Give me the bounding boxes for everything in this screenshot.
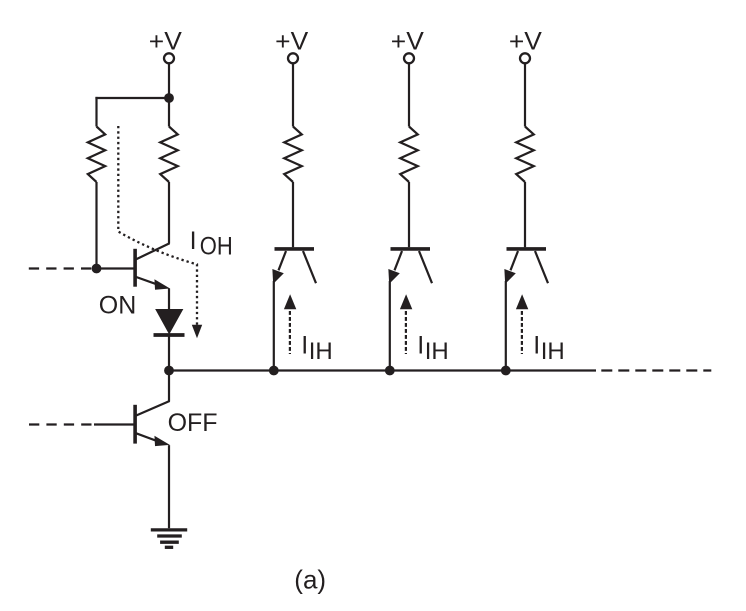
current arrow IIH 4 arrowhead (516, 294, 528, 309)
wire Q2 emitter to ground (168, 445, 170, 528)
wire supply 3 to resistor (408, 63, 410, 126)
wire base to Q1 (97, 267, 134, 269)
node top junction dot (164, 93, 174, 103)
transistor load Q4 emitter lead (511, 251, 519, 270)
svg-text:+V: +V (509, 28, 542, 56)
svg-text:OH: OH (200, 233, 233, 261)
ground symbol (151, 530, 187, 547)
svg-text:I: I (301, 332, 308, 360)
wire Q2 collector from output node (168, 371, 170, 402)
current arrow IIH 3 dashed stem (405, 311, 407, 354)
svg-text:OFF: OFF (168, 409, 218, 437)
wire output bus solid (169, 369, 596, 371)
transistor Q1 emitter arrowhead (155, 280, 168, 289)
current arrow IIH 2 arrowhead (284, 294, 296, 309)
transistor load Q2 collector lead (303, 251, 316, 283)
transistor load Q2 base bar (275, 247, 315, 251)
svg-text:+V: +V (149, 28, 182, 56)
wire left resistor bottom lead (95, 182, 97, 269)
wire dashed input lead upper (29, 267, 97, 269)
resistor left (base resistor) (88, 127, 105, 183)
transistor Q1 ON base bar (133, 249, 137, 287)
resistor right (collector resistor) (160, 127, 178, 183)
transistor load Q4 collector lead (535, 251, 548, 283)
transistor load Q3 collector lead (419, 251, 432, 283)
transistor load Q3 emitter arrowhead (389, 270, 399, 283)
transistor load Q3 base bar (391, 247, 431, 251)
supply terminal circle 2 (288, 53, 298, 63)
supply terminal circle 3 (404, 53, 414, 63)
supply terminal circle 1 (164, 53, 174, 63)
wire diode to output node (168, 335, 170, 371)
svg-text:+V: +V (391, 28, 424, 56)
diode D1 cathode bar (154, 333, 185, 337)
current arrow IIH 2 dashed stem (289, 311, 291, 354)
svg-text:IH: IH (425, 338, 449, 365)
node bus junction dot 4 (501, 366, 511, 376)
wire emitter 2 to bus (273, 281, 275, 371)
wire supply 4 to resistor (524, 63, 526, 126)
wire right resistor bottom lead (168, 182, 170, 244)
svg-text:I: I (533, 332, 540, 360)
node bus junction dot 3 (385, 366, 395, 376)
transistor load Q3 emitter lead (395, 251, 403, 270)
current path IOH arrowhead (192, 325, 202, 339)
resistor input 3 (400, 127, 418, 183)
wire dashed input lead lower (29, 423, 96, 425)
svg-text:IH: IH (541, 338, 565, 365)
svg-text:I: I (417, 332, 424, 360)
wire left resistor top lead (95, 97, 97, 127)
svg-text:(a): (a) (294, 565, 326, 595)
transistor load Q2 emitter arrowhead (273, 270, 283, 283)
svg-text:ON: ON (99, 292, 137, 320)
transistor load Q4 base bar (507, 247, 547, 251)
transistor load Q4 emitter arrowhead (505, 270, 515, 283)
resistor input 4 (516, 127, 534, 183)
transistor Q1 emitter lead (136, 277, 162, 286)
wire resistor 4 to base (524, 182, 526, 247)
wire resistor 2 to base (292, 182, 294, 247)
wire right resistor top lead (168, 98, 170, 127)
wire base to Q2 (94, 423, 134, 425)
current path IOH dotted line (118, 126, 197, 326)
current arrow IIH 4 dashed stem (521, 311, 523, 354)
wire Q1 emitter to diode (168, 288, 170, 311)
node base junction dot (92, 264, 102, 274)
node output junction dot (164, 366, 174, 376)
diode D1 triangle (156, 310, 183, 334)
transistor Q2 emitter lead (136, 433, 162, 443)
current arrow IIH 3 arrowhead (400, 294, 412, 309)
wire supply 1 to node (168, 63, 170, 98)
transistor Q2 OFF base bar (133, 405, 137, 444)
wire supply 2 to resistor (292, 63, 294, 126)
supply terminal circle 4 (520, 53, 530, 63)
transistor load Q2 emitter lead (279, 251, 287, 270)
svg-text:I: I (190, 227, 197, 255)
wire emitter 4 to bus (505, 281, 507, 371)
node bus junction dot 2 (269, 366, 279, 376)
wire output bus dashed continuation (601, 369, 711, 371)
resistor input 2 (284, 127, 302, 183)
wire top horizontal to left resistor (95, 97, 169, 99)
svg-text:+V: +V (275, 28, 308, 56)
transistor Q1 collector lead (136, 243, 169, 259)
wire emitter 3 to bus (389, 281, 391, 371)
wire resistor 3 to base (408, 182, 410, 247)
svg-text:IH: IH (309, 338, 333, 365)
transistor Q2 emitter arrowhead (155, 437, 168, 446)
transistor Q2 OFF collector lead (136, 401, 169, 416)
